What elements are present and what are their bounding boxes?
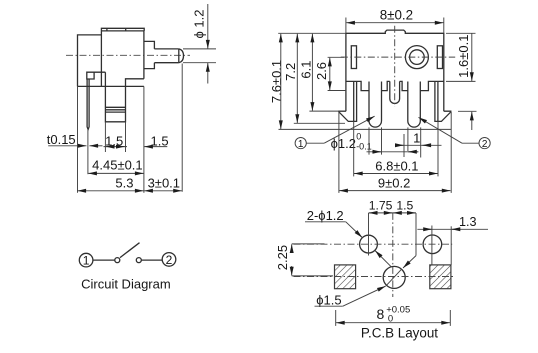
9 extension lines (338, 112, 340, 193)
1.3 dimension line (417, 228, 488, 230)
hole top-left (360, 235, 378, 253)
boss inner circle (410, 50, 425, 65)
1.3 arrows (425, 228, 432, 230)
extension line leg right (125, 122, 127, 152)
8 extension lines (335, 310, 337, 326)
svg-text:2.6: 2.6 (314, 62, 329, 80)
front body bottom profile (346, 81, 444, 90)
1 gap dimension (396, 144, 442, 146)
svg-text:0: 0 (356, 132, 361, 142)
1.5 right dimension (144, 146, 167, 148)
pin 1 (369, 82, 382, 128)
pin 2 (408, 82, 421, 128)
9 dimension (339, 190, 394, 192)
extension line body right (143, 86, 145, 192)
6.8 extension lines (353, 121, 355, 176)
2.25 dimension (291, 244, 293, 252)
diagonal arrow to hole top-left (375, 251, 392, 268)
svg-text:8: 8 (377, 306, 385, 322)
7.2 bottom extension (294, 122, 345, 124)
wire left (93, 259, 115, 261)
svg-text:1.3: 1.3 (459, 215, 477, 229)
svg-text:ϕ1.2: ϕ1.2 (331, 136, 356, 151)
balloon 1 (295, 138, 306, 149)
svg-text:t0.15: t0.15 (47, 132, 76, 147)
terminal 2 circle (162, 253, 176, 267)
left foot (339, 81, 357, 121)
boss outer circle (405, 46, 428, 69)
leg crimp lines (105, 106, 125, 108)
horizontal centerline (341, 56, 455, 58)
1.75 arrows (369, 212, 376, 214)
hole top-right centerline (431, 226, 433, 265)
hole top-right (423, 235, 442, 254)
phi1.5 underline (315, 305, 343, 307)
switch lever (120, 243, 140, 258)
svg-text:1.6±0.1: 1.6±0.1 (456, 35, 471, 78)
terminal 1 circle (79, 253, 93, 267)
svg-text:4.45±0.1: 4.45±0.1 (92, 157, 143, 172)
svg-text:ϕ 1.2: ϕ 1.2 (192, 10, 207, 39)
svg-text:7.2: 7.2 (283, 63, 298, 81)
bottom leg (105, 79, 143, 122)
right foot (435, 81, 451, 121)
side main body (101, 28, 144, 86)
1.75 extension line (368, 213, 370, 256)
centerline (66, 54, 190, 56)
1.6 dimension (471, 33, 473, 81)
6.8 dimension (354, 173, 394, 175)
1.6 extension lines (446, 32, 476, 34)
phi1.5 leader (343, 286, 386, 306)
contact right (136, 258, 141, 263)
extension line shaft tip (181, 64, 183, 192)
svg-text:ϕ1.5: ϕ1.5 (316, 293, 341, 308)
upper horizontal centerline (294, 243, 453, 245)
7.6 dimension (280, 34, 282, 85)
svg-text:8±0.2: 8±0.2 (380, 8, 413, 23)
top dimension line (369, 212, 417, 214)
balloon 1 leader (306, 142, 324, 144)
center pin (390, 81, 400, 103)
svg-text:0: 0 (388, 314, 393, 325)
6.1 bottom extension (309, 110, 346, 112)
2.25 extension lines (292, 243, 325, 245)
thin pin (87, 79, 89, 130)
hole center (383, 266, 405, 288)
front body outline (346, 30, 444, 111)
extension line pin (87, 130, 89, 174)
extension line leg left (104, 122, 106, 152)
phi1.2 dimension (207, 4, 209, 49)
lower horizontal centerline (294, 276, 454, 278)
side body left block (78, 35, 102, 87)
svg-text:1: 1 (83, 254, 90, 268)
svg-text:5.3: 5.3 (115, 175, 133, 190)
t0.15 dimension (48, 145, 86, 147)
svg-text:1: 1 (413, 131, 420, 146)
top extension line left (278, 32, 346, 34)
svg-text:Circuit Diagram: Circuit Diagram (81, 277, 171, 292)
8+-0.2 extension lines (345, 18, 347, 33)
wire right (141, 259, 162, 261)
svg-text:1.75: 1.75 (369, 199, 393, 213)
left pad (335, 265, 356, 289)
8+-0.2 dimension (346, 22, 394, 24)
svg-text:1: 1 (298, 139, 304, 150)
body bottom line (78, 85, 144, 87)
svg-text:1.5: 1.5 (151, 133, 169, 148)
svg-text:2-ϕ1.2: 2-ϕ1.2 (307, 208, 344, 223)
phi1.2 extension lines (183, 48, 216, 50)
1 gap extension lines (403, 134, 405, 157)
svg-text:1.5: 1.5 (396, 199, 413, 213)
svg-text:2.25: 2.25 (275, 245, 290, 270)
svg-text:1.5: 1.5 (105, 133, 123, 148)
phi1.2 pin dimension (367, 151, 419, 153)
vertical centerline (394, 26, 396, 107)
2.6 dimension (329, 58, 331, 71)
right slot (437, 46, 442, 69)
1.5 extension line (415, 213, 417, 256)
right pad (430, 265, 451, 289)
6.1 dimension (311, 34, 313, 72)
shaft tip arc (179, 49, 184, 63)
svg-text:2: 2 (482, 139, 488, 150)
balloon 2 leader (462, 142, 479, 144)
vertical centerline (392, 213, 394, 297)
3+-0.1 dimension (144, 190, 163, 192)
2.6 extension lines (328, 56, 344, 58)
svg-text:6.1: 6.1 (298, 61, 313, 79)
7.2 dimension (296, 34, 298, 75)
1.5 arrows (393, 212, 399, 214)
4.45 dimension (88, 172, 116, 174)
svg-text:2: 2 (166, 253, 173, 267)
5.3 dimension (77, 190, 110, 192)
shaft step block (144, 41, 155, 68)
svg-text:6.8±0.1: 6.8±0.1 (375, 158, 418, 173)
shaft (154, 49, 178, 63)
2-phi1.2 leader (346, 222, 363, 238)
svg-text:P.C.B Layout: P.C.B Layout (361, 325, 438, 340)
svg-text:9±0.2: 9±0.2 (378, 175, 410, 190)
base line (279, 128, 452, 130)
cap tick marks (106, 28, 108, 31)
svg-text:3±0.1: 3±0.1 (148, 175, 180, 190)
8 dimension (336, 322, 392, 324)
left slot (351, 46, 356, 69)
contact left (115, 258, 120, 263)
phi1.2 pin extension lines (368, 127, 370, 154)
2-phi1.2 underline (305, 221, 346, 223)
extension line left rect (77, 86, 79, 192)
right pad extension (450, 226, 452, 265)
1.5 left dimension (104, 146, 128, 148)
inner notch box (87, 72, 106, 86)
diagonal arrow to hole center (415, 255, 417, 257)
balloon 2 (479, 138, 490, 149)
